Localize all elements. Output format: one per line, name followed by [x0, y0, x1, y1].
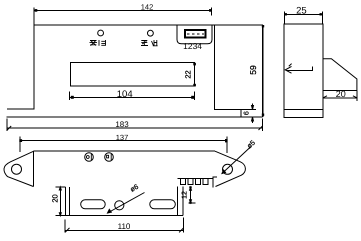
svg-text:110: 110 — [118, 222, 131, 231]
svg-text:25: 25 — [296, 6, 307, 17]
svg-text:20: 20 — [51, 194, 60, 202]
svg-text:59: 59 — [248, 65, 258, 75]
svg-text:ø5: ø5 — [246, 139, 257, 150]
svg-text:20: 20 — [336, 89, 346, 99]
svg-text:22: 22 — [184, 70, 193, 78]
svg-text:183: 183 — [115, 120, 129, 129]
svg-text:12: 12 — [182, 191, 189, 199]
svg-text:1234: 1234 — [183, 41, 202, 51]
svg-text:142: 142 — [141, 3, 154, 12]
svg-text:137: 137 — [116, 133, 129, 142]
svg-text:104: 104 — [117, 89, 133, 100]
svg-text:6: 6 — [244, 111, 251, 115]
svg-text:ø6: ø6 — [129, 184, 140, 194]
